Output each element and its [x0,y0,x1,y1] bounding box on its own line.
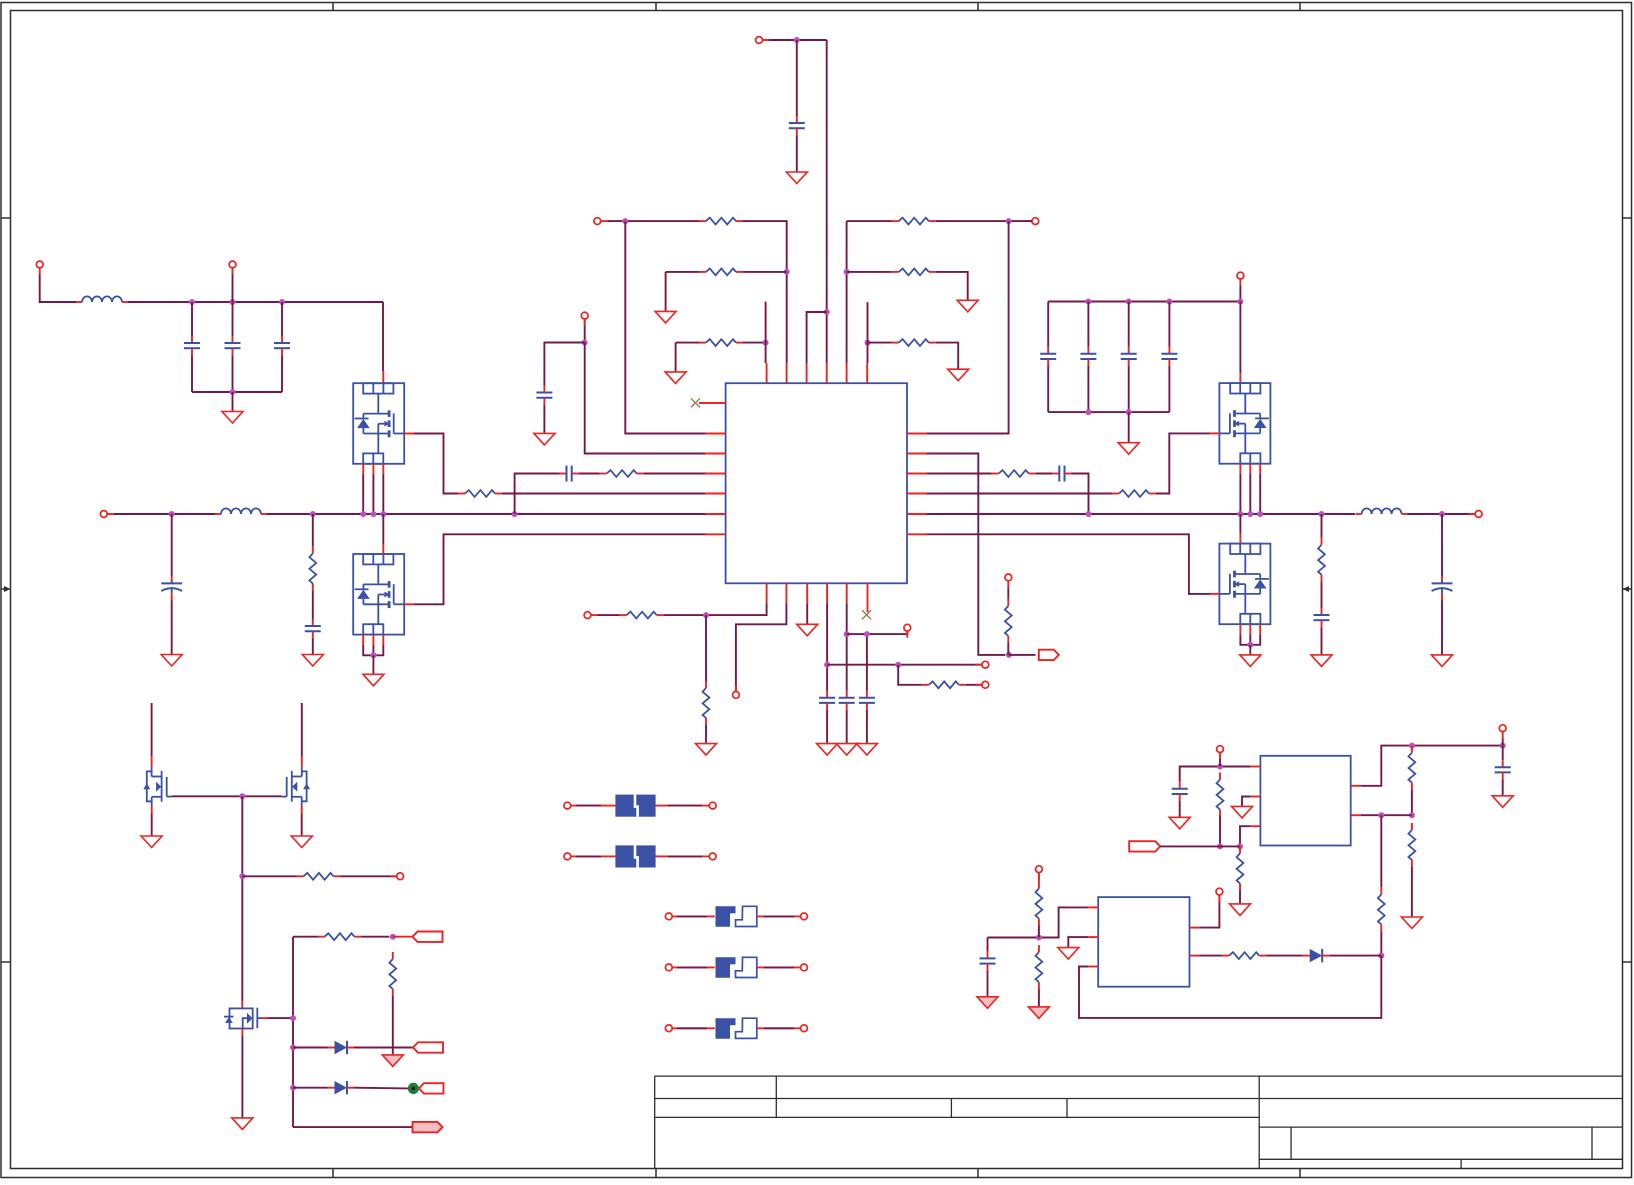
junction R3 R4 [784,269,790,275]
wire C7 top [281,302,283,336]
wire C12 to R6 [579,473,600,475]
wire P11 to R14 [598,614,620,616]
border arrowhead right [1623,586,1630,592]
pin Q2 source stub 3 [382,635,384,645]
connector pin P11 [584,612,597,619]
connector pin P25 [1216,888,1223,901]
connector pin P4 [756,37,769,44]
wire Q4 source join [1240,634,1260,645]
pin U1 bottom x786 [785,583,787,603]
wire SW to Q2 drain [382,514,384,544]
junction Q1 S1 [360,511,366,517]
pin Q6 drain stub [301,756,303,767]
pin Q4 source stub 2 [1249,624,1251,634]
junction vcc1 [824,662,830,668]
wire R9 to gnd [936,343,958,369]
resistor R4 [699,269,743,276]
wire U3 out [1200,895,1220,928]
pin U2 left 3 [1250,825,1260,827]
pin Q3 source stub 1 [1239,464,1241,474]
ground GND27 [1492,796,1513,808]
junction trunk d2 [290,1085,296,1091]
junction R7 R8 [844,269,850,275]
resistor R5 [699,339,743,346]
wire d2 left [293,1087,328,1089]
wire U1 vcc cap2 [846,603,848,690]
wire U3 gnd hook [1068,937,1088,947]
ground GND19 [856,744,877,756]
wire C8 bottom [171,600,173,654]
wire fuse1 left dark [576,805,601,807]
pin U3 left 1 [1088,906,1098,908]
border tick bottom 1 [332,1169,334,1178]
pin U1 left y473 [706,473,726,475]
connector pin P12 [733,685,740,698]
junction Q3 S3 [1257,511,1263,517]
wire U1 vcc cap1 [826,603,828,690]
wire C11 to gnd [543,405,545,433]
pin Q4 gate stub [1210,593,1220,595]
wire R7 left [847,220,892,222]
capacitor C21 [839,691,855,710]
junction fb2 [1237,843,1243,849]
junction Q3 S2 [1247,511,1253,517]
connector pin P24 [1036,866,1043,879]
wire R24 diode [1380,931,1382,955]
wire C25 gnd [987,971,989,997]
wire C6 bottom [232,355,234,392]
junction en [1006,652,1012,658]
capacitor C10 [789,116,805,135]
pin U1 right y453 [907,453,927,455]
wire jp2 right [757,966,801,968]
wire jp3 right dark [764,1027,794,1029]
port VREG [1129,841,1160,851]
wire P4 node [769,39,827,41]
junction cap gnd [230,389,236,395]
pin U1 top x806 [806,363,808,383]
inductor L1 [76,296,128,302]
wire d2 right [354,1087,408,1090]
wire R5 left [676,342,699,344]
junction comp SW [1086,511,1092,517]
wire to R15 [705,615,707,681]
border tick left 2 [1,961,11,963]
pin Q3 source stub 2 [1249,464,1251,474]
wire C5 top [191,302,193,336]
wire Q6 source [301,813,303,835]
wire R26 gnd [1038,989,1040,1006]
junction out1 [1409,743,1415,749]
wire Q3 source 1 [1239,474,1241,514]
wire R1 to U1 [502,493,706,495]
wire R9 left [868,342,892,344]
wire R7 to P7 [936,220,1032,222]
border tick left 1 [1,217,11,219]
pin U3 right 4 [1190,927,1200,929]
no-connect U1 bottom [862,610,871,619]
junction diode [1378,953,1384,959]
wire C6 top [232,302,234,336]
wire vcc to P14 [827,664,982,666]
wire R10 to U1 [927,493,1112,495]
title block outline [654,1076,656,1168]
resistor R14 [620,612,664,619]
capacitor C24 [1495,760,1511,779]
pin Q5 drain stub [151,756,153,767]
wire C9 to gnd [312,638,314,654]
connector pin P1 [36,261,43,274]
wire R5 to gnd [675,343,677,372]
pin Q1 source stub 1 [362,464,364,474]
wire R8 left [847,271,892,273]
wire d1 right [354,1047,413,1049]
wire C20 gnd [826,710,828,743]
wire U3 fb loop [1079,956,1381,1018]
wire jp3 left [672,1027,715,1029]
junction Q3 S1 [1237,511,1243,517]
resistor R15 [703,681,710,725]
wire R18 to port [362,936,390,938]
pin Q7 drain stub [241,1001,243,1009]
wire stub up left [765,302,767,343]
jumper JP1 [716,906,757,927]
wire Q1 source 2 [372,474,374,514]
connector pin P7 [1025,218,1038,225]
polarized capacitor C18 [1432,576,1453,601]
pin Q3 source stub 3 [1259,464,1261,474]
ground GND11 [1118,443,1139,455]
wire C17 to gnd [1321,627,1323,654]
connector pin P14 [975,661,988,668]
pin Q4 drain stub [1239,534,1241,544]
wire C15 bottom [1128,366,1130,412]
connector pin P21a [665,1025,672,1032]
junction R14 R15 [703,612,709,618]
pin U1 bottom x807 [806,583,808,603]
resistor R20 [1217,773,1224,817]
border mid arrow right [1623,588,1632,590]
wire U3 to R27 [1200,955,1223,957]
ground GND9 [957,300,978,312]
wire P6 stem [584,326,586,343]
junction R18 R19 [390,934,396,940]
wire fuse2 right [663,855,710,857]
pin Q6 source stub [301,806,303,813]
pin U1 top x867 [866,363,868,383]
border tick top 4 [1299,3,1301,11]
connector pin P3 [100,511,113,518]
junction VIN C6 [230,299,236,305]
capacitor C11 [536,386,552,405]
junction vcc2 [844,631,850,637]
wire U3 in [988,907,1089,937]
wire to R11 [1321,514,1323,538]
wire R16 to P15 [966,684,982,686]
wire D3 junction [1329,955,1381,957]
junction div [1409,812,1415,818]
jumper JP3 [716,1018,757,1039]
connector pin P22 [1217,746,1224,759]
pin U2 left 2 [1250,796,1260,798]
resistor R6 [600,470,644,477]
wire R4 to gnd [665,272,667,311]
pin U3 left 3 [1088,966,1098,968]
lead f2b [656,855,663,857]
wire C14 top [1087,302,1089,347]
wire R20 down [1219,817,1221,847]
wire fuse1 left [571,805,609,807]
ground GND26 [1230,904,1251,916]
pin U1 bottom x827 [826,583,828,603]
wire U1 agnd [806,603,808,624]
wire P2 stem [232,275,234,303]
wire cap gnd bus [192,391,282,393]
wire Q6 drain [301,703,303,756]
wire Q1 source 1 [362,474,364,514]
wire trunk bottom [293,1126,413,1128]
wire port to fb [1160,845,1240,847]
wire Q7 source [241,1037,243,1118]
resistor R12 [1005,599,1012,643]
wire U2 fb2 [1361,814,1412,816]
ground GND6 [655,311,676,323]
wire L3 to P9 [1408,513,1476,515]
wire R13 to C19 [1036,473,1053,475]
pin U3 left 2 [1088,936,1098,938]
pin U2 right 4 [1351,785,1361,787]
resistor R24 [1378,887,1385,931]
capacitor C12 [560,466,579,482]
capacitor C14 [1080,347,1096,366]
ground GND18 [836,744,857,756]
wire Q3 gate to R10 [1156,433,1210,493]
wire C19 to SW [1072,474,1089,515]
wire jp1 right dark [764,915,794,917]
pin U1 right y534 [907,533,927,535]
capacitor C17 [1314,608,1330,627]
pin Q7 source stub [241,1029,243,1037]
pin U1 right y514 [907,513,927,515]
lead f1a [608,805,615,807]
pin U1 left NC [699,402,726,404]
junction gate R17 [239,873,245,879]
wire U1 pin step [807,312,827,363]
capacitor C5 [184,336,200,355]
connector pin P18b [709,853,716,860]
connector pin P15 [975,681,988,688]
connector pin P16 [390,873,403,880]
wire Q1 source 3 [382,474,384,514]
capacitor C15 [1121,347,1137,366]
wire U1 en line [927,454,1005,655]
resistor R7 [892,218,936,225]
wire P4 to U1 [826,40,828,363]
connector pin P18a [564,853,571,860]
wire R12 to en [1007,643,1009,655]
ground GND12 [1311,655,1332,667]
wire R5 right [743,342,766,344]
connector pin P20b [801,964,808,971]
fuse F2 [615,845,655,867]
pin U2 right 5 [1351,814,1361,816]
wire trunk to R18 [293,936,318,938]
ground GND10 [948,369,969,381]
resistor R8 [892,269,936,276]
pin Q7 gate stub [262,1017,269,1019]
wire Q3 source 3 [1259,474,1261,514]
junction Q4 source [1247,642,1253,648]
junction Q1 S2 [370,511,376,517]
ground GND13 [1432,655,1453,667]
pin P6 stub [584,319,586,326]
junction P6 [582,340,588,346]
ground GND30 [1028,1007,1049,1019]
transistor Q1 [353,383,404,464]
wire C24 top [1502,746,1504,761]
wire to gnd [232,392,234,411]
junction out2 [1500,743,1506,749]
junction fb1 [1217,843,1223,849]
wire P5 to R3 [607,220,699,222]
wire fuse1 right dark [668,805,702,807]
wire P10 to R12 [1007,587,1009,599]
junction vcc3 [864,631,870,637]
wire U2 fb [1240,826,1250,846]
wire to R17 [242,875,296,877]
pin Q2 gate stub [404,603,414,605]
capacitor C19 [1052,466,1071,482]
pin U1 left y493 [706,493,726,495]
wire Q2 gate to U1 [414,534,706,604]
resistor R23 [1409,823,1416,867]
wire Q5 source [151,813,153,835]
pin Q4 source stub 3 [1259,624,1261,634]
resistor R16 [922,681,966,688]
wire R6 to U1 [644,473,706,475]
pin U1 bottom x846 [846,583,848,603]
wire jp2 left dark [677,966,707,968]
junction gates [239,793,245,799]
wire to port1 [393,936,413,938]
resistor R25 [1036,882,1043,926]
junction Q1 S3 [380,511,386,517]
wire en to port [1009,654,1036,656]
wire trunk [292,937,294,1127]
connector pin P5 [594,218,607,225]
ground GND16 [797,624,818,636]
pin U1 bottom x867 [867,583,869,603]
wire Q2 source join [363,645,383,656]
border tick bottom 2 [655,1169,657,1178]
wire bank to gnd [1128,412,1130,442]
capacitor C9 [305,619,321,638]
junction cb2 [1126,299,1132,305]
ground GND17 [817,744,838,756]
junction cb1 [1085,299,1091,305]
wire U1 to P12 [736,603,787,691]
wire comp left [515,474,560,515]
junction cbg2 [1126,409,1132,415]
transistor Q4 [1219,544,1270,625]
wire fuse2 left [571,855,609,857]
wire R22 R23 [1411,790,1413,816]
pin U1 bottom x766 [766,583,768,603]
wire Q4 gate to U1 [927,534,1210,594]
wire P8 to Q3 drain [1239,302,1241,374]
pin U1 right y493 [907,493,927,495]
wire C23 gnd [1179,801,1181,817]
wire jp3 right [757,1027,801,1029]
ground GND5 [786,172,807,184]
wire R25 down [1038,926,1040,938]
wire Q3 source 2 [1249,474,1251,514]
capacitor C20 [819,691,835,710]
pin Q5 source stub [151,806,153,813]
transistor Q5 [143,767,171,806]
connector pin P8 [1237,272,1244,285]
wire R4 right [743,271,787,273]
wire Q5 drain [151,703,153,756]
wire R9 to U1 [867,343,869,364]
transistor Q2 [353,554,404,635]
ground GND7 [665,372,686,384]
wire gate down [241,796,243,1000]
wire C15 top [1128,302,1130,347]
wire P8 stem [1239,286,1241,302]
IC U1 [726,383,907,583]
capacitor C6 [225,336,241,355]
capacitor C13 [1040,347,1056,366]
junction cbg1 [1085,409,1091,415]
wire P1 to L1 [40,275,76,303]
pin Q3 drain stub [1239,373,1241,383]
wire R2 to C9 [312,590,314,619]
wire vcc to P13 [847,631,908,634]
ground GND31 [1058,948,1079,960]
inductor L3 [1356,508,1408,514]
resistor R26 [1036,945,1043,989]
pin U2 left 1 [1250,766,1260,768]
polarized capacitor C8 [161,576,182,601]
wire R4 left [666,271,699,273]
wire R23 gnd [1411,867,1413,917]
resistor R21 [1237,846,1244,890]
port CTRL2 [413,1042,443,1052]
jumper JP2 [716,957,757,978]
wire jp3 left dark [677,1027,707,1029]
transistor Q3 [1219,383,1270,464]
pin Q2 source stub 2 [372,635,374,645]
border tick right 2 [1623,961,1632,963]
junction SW sense [512,511,518,517]
wire C14 bottom [1087,366,1089,412]
resistor R1 [458,490,502,497]
wire jp2 right dark [764,966,794,968]
connector pin P19b [801,913,808,920]
wire R15 to gnd [705,725,707,743]
wire vcc cap3 [866,634,868,691]
resistor R9 [892,339,936,346]
junction VOUT right [1439,511,1445,517]
transistor Q7 [224,1008,262,1029]
wire C22 gnd [866,710,868,743]
ground GND20 [141,836,162,848]
resistor R17 [297,873,341,880]
resistor R2 [309,546,316,590]
wire VIN bus top [128,301,383,303]
wire fuse2 right dark [668,855,702,857]
